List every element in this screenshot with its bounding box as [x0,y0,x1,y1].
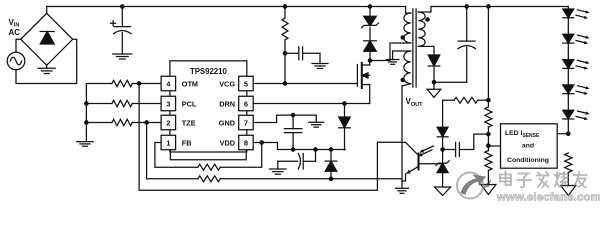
wire OTM bottom bus [139,142,402,190]
wire drain to primary [370,43,411,61]
svg-text:FB: FB [182,138,192,147]
svg-text:7: 7 [244,118,248,127]
pin 7 (GND) [219,115,253,130]
resistor R10 (LED current sense) [565,153,572,186]
ground at GND pin net [309,115,324,127]
wire resistor bus (OTM/PCL/TZE pulldowns) [85,84,87,142]
bridge rectifier D1 (diamond) [21,13,73,65]
svg-text:VCG: VCG [219,79,235,88]
LED D10 with emission arrows [563,34,590,44]
svg-text:8: 8 [244,138,248,147]
node: bulk cap junction [121,5,124,8]
diode D3 (clamp lower) [364,28,377,61]
svg-text:1: 1 [166,138,170,147]
svg-text:AC: AC [9,28,21,37]
resistor R9 (divider lower) [485,151,492,185]
wire secondary top rail [431,6,568,8]
node: opto LED - C6 junction [441,148,444,151]
svg-text:TPS92210: TPS92210 [190,67,228,76]
zener D2 (clamp upper) [362,7,379,28]
wire FB bottom loop to pin8 [170,150,246,160]
node: GND-C2 junction [291,113,294,116]
wire VCG net (pin5) [253,83,357,85]
wire bridge top vertex to top rail [46,7,48,14]
wire FB loop to VDD node [220,143,261,168]
wire top rail (primary DC bus) [47,6,406,8]
svg-text:PCL: PCL [182,99,197,108]
LED D9 with emission arrows [563,9,590,19]
node: TZE feedback tap [145,121,148,124]
capacitor C6 (feedback filter) [443,134,489,156]
resistor R1 (OTM) [86,80,161,86]
diode D4 (aux to VDD) [325,150,337,179]
svg-text:2: 2 [166,118,170,127]
wire GND net (pin7) [253,115,316,122]
node: LED string sense junction [567,132,570,135]
transistor Q1 (external MOSFET) [357,61,369,104]
ground below C4 [312,53,328,68]
node: VDD-R4 junction [260,141,263,144]
node: VCG resistor junction [283,5,286,8]
ground below C3 [270,169,287,174]
svg-text:and: and [522,143,534,150]
node: aux phase dot [401,78,404,81]
svg-text:3: 3 [166,99,170,108]
optocoupler LED D7 [437,100,448,149]
transformer T1 primary winding [404,7,411,44]
wire DRN net (pin6) [253,103,370,105]
wire aux bottom lead [402,84,411,86]
node: snubber cap tap [283,52,286,55]
pin 2 (TZE) [161,115,196,130]
node: D4-TZE line junction [329,177,332,180]
node: clamp junction [368,5,371,8]
AC source V1 (sine voltage source) [7,52,25,70]
diode D6 (output rectifier) [428,55,440,82]
node: OTM feedback tap [137,82,140,85]
node: output return junction [432,81,435,84]
svg-text:6: 6 [244,99,248,108]
ground below R9 [481,185,496,195]
node: DRN-D5 junction [343,102,346,105]
node: VDD-C3 junction [314,148,317,151]
wire aux sense vertical [401,86,403,188]
wire TZE drop to R7 line [146,123,148,179]
resistor R8 (divider upper) [485,7,492,151]
label V_IN AC [9,18,21,37]
node: divider tap 1 [487,132,490,135]
svg-text:OTM: OTM [182,79,198,88]
wire VDD net [253,143,345,150]
svg-text:TZE: TZE [182,118,196,127]
watermark logo and text [457,172,600,204]
pin 6 (DRN) [219,96,253,111]
ground below resistor bus [77,142,93,147]
node: R7-divider junction [487,99,490,102]
resistor R3 (TZE) [86,119,161,125]
LED sense block U2 [501,124,558,168]
op-amp U1 TPS92210 (controller IC body) [170,61,247,152]
ground below C1 [113,54,132,59]
node: divider junction [487,5,490,8]
capacitor C4 (VCG filter) [285,47,320,60]
capacitor C1 (bulk, polarized) [111,7,132,55]
node: divider tap 2 [487,144,490,147]
node: drain clamp junction [368,59,371,62]
node: secondary phase dot [426,18,429,21]
wire C3 to ground [277,161,279,169]
LED D12 with emission arrows [563,85,590,95]
bridge internal diode symbol [40,32,54,45]
transistor Q2 (optocoupler output) [402,142,443,181]
ground at aux winding top [386,51,399,64]
ground below R10 [561,186,576,196]
pin 8 (VDD) [220,135,254,150]
wire OTM drop to bottom bus [138,84,140,191]
diode D5 (DRN to VDD) [339,104,351,150]
node: bus-PCL junction [85,102,88,105]
capacitor C5 (output, polarized) [434,7,476,83]
node: bus-TZE junction [85,121,88,124]
resistor R5 (TZE-aux) [198,176,220,182]
transformer T1 auxiliary winding [393,51,411,84]
pin 3 (PCL) [161,96,197,111]
resistor R2 (PCL) [86,100,161,106]
wire secondary bottom lead [418,46,434,55]
capacitor C3 (VDD bulk, polarized) [278,150,316,170]
resistor R7 (opto LED feed) [443,97,489,103]
wire AC bottom loop to bridge right vertex [16,39,77,83]
svg-text:www.elecfans.com: www.elecfans.com [496,192,600,204]
ground below Q2 emitter [396,188,409,193]
wire box to LED string [557,133,568,135]
node V_OUT flag [406,82,441,108]
pin 5 (VCG) [219,76,253,91]
capacitor C2 (VDD decoupling) [284,115,301,149]
LED D13 with emission arrows [563,110,590,120]
node: primary phase dot [401,36,404,39]
svg-text:Conditioning: Conditioning [507,157,549,164]
light arrows (optocoupler) [418,146,434,156]
transformer T1 core [413,9,416,87]
resistor R4 (FB-VDD) [198,164,220,170]
wire TZE line right segment [220,178,402,180]
node: VCG-R6 junction [283,82,286,85]
svg-text:GND: GND [219,118,235,127]
wire box input stub [488,145,500,147]
transformer T1 secondary winding [418,7,431,47]
pin 1 (FB) [161,135,191,150]
wire FB loop (pin1 left-down) [155,143,198,168]
wire AC top lead to bridge left vertex [16,39,21,52]
LED D11 with emission arrows [563,60,590,70]
svg-text:VDD: VDD [220,138,235,147]
pin 4 (OTM) [161,76,198,91]
node: VDD-C2 junction [291,148,294,151]
resistor R6 (VCG from rail) [282,7,288,84]
node: output cap junction [465,5,468,8]
node: VDD-D4 junction [329,148,332,151]
wire TZE line (to aux winding) [147,178,198,180]
zener D8 (opto clamp) [436,150,449,188]
svg-text:DRN: DRN [219,99,235,108]
wire LED string vertical [567,7,569,134]
ground below bridge [38,65,55,73]
ground below D8 [435,187,451,196]
svg-text:5: 5 [244,79,248,88]
